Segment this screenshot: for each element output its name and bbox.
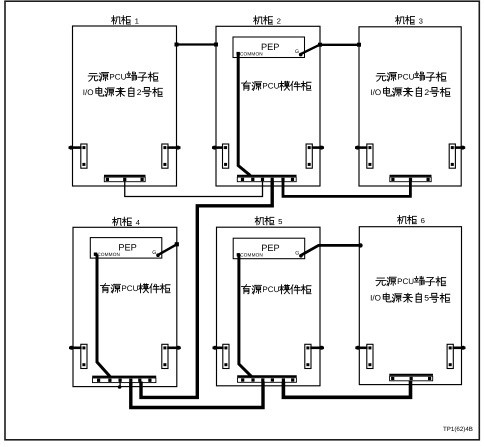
svg-text:PCU: PCU xyxy=(262,285,279,294)
cabinet 2 left terminal block xyxy=(212,144,229,168)
svg-text:PEP: PEP xyxy=(261,42,279,52)
PEP panel U5 (cabinet 5) xyxy=(233,238,305,259)
cabinet 6 box xyxy=(359,227,461,385)
label cabinet 2 xyxy=(253,16,280,26)
svg-text:5: 5 xyxy=(278,217,282,226)
wire cabinet2 G to cabinet3 xyxy=(301,43,361,54)
cabinet 1 bottom terminal strip xyxy=(104,176,146,182)
cabinet 3 box xyxy=(359,27,461,186)
label cabinet 5 xyxy=(255,216,282,226)
cabinet 2 text xyxy=(241,81,311,91)
cabinet 1 right terminal block xyxy=(162,144,181,168)
wire cabinet4 G to edge xyxy=(159,242,179,255)
cabinet 1 text line 2 xyxy=(83,87,163,97)
cabinet 6 left terminal block xyxy=(355,344,373,368)
svg-text:PCU: PCU xyxy=(262,82,279,91)
cabinet 1 text line 1 xyxy=(88,72,158,82)
svg-text:COMMON: COMMON xyxy=(240,253,263,258)
svg-text:G: G xyxy=(152,250,156,256)
svg-text:I/O: I/O xyxy=(370,88,381,97)
cabinet 3 text line 2 xyxy=(370,87,450,97)
PEP panel U4 (cabinet 4) xyxy=(90,238,162,259)
cabinet 1 box xyxy=(73,26,177,186)
cabinet 6 text line 2 xyxy=(370,293,450,303)
svg-text:PEP: PEP xyxy=(118,243,136,253)
cabinet 6 text line 1 xyxy=(376,276,446,286)
svg-text:PCU: PCU xyxy=(109,72,126,81)
cabinet 1 left terminal block xyxy=(69,144,88,168)
svg-text:PEP: PEP xyxy=(261,243,279,253)
svg-text:PCU: PCU xyxy=(397,72,414,81)
wire cabinet1 strip to cabinet2 strip xyxy=(125,181,263,197)
label cabinet 3 xyxy=(395,16,422,26)
cabinet 2 right terminal block xyxy=(306,144,324,168)
cabinet 5 bottom terminal strip xyxy=(237,376,297,382)
svg-text:2: 2 xyxy=(424,88,429,97)
wire cabinet5 COMMON to strip xyxy=(239,255,252,377)
cabinet 3 bottom terminal strip xyxy=(390,176,432,182)
wire cabinet2 strip to cabinet3 strip xyxy=(283,181,410,197)
svg-text:2: 2 xyxy=(277,17,281,26)
cabinet 3 text line 1 xyxy=(376,72,446,82)
svg-text:G: G xyxy=(295,250,299,256)
svg-text:2: 2 xyxy=(137,88,142,97)
cabinet 5 left terminal block xyxy=(213,344,230,368)
wire cabinet2 strip to cabinet4 strip (long) xyxy=(141,181,272,398)
cabinet 4 left terminal block xyxy=(69,344,87,368)
svg-text:TP1(62)4B: TP1(62)4B xyxy=(443,426,473,433)
cabinet 5 right terminal block xyxy=(305,344,324,368)
svg-text:COMMON: COMMON xyxy=(97,252,120,257)
cabinet 4 right terminal block xyxy=(162,344,181,368)
doc number xyxy=(443,426,473,433)
cabinet 5 box xyxy=(217,227,321,386)
cabinet 6 bottom terminal strip xyxy=(389,375,433,381)
cabinet 6 right terminal block xyxy=(447,344,465,368)
svg-text:6: 6 xyxy=(421,216,425,225)
svg-text:G: G xyxy=(295,49,299,55)
wire cabinet5 G to cabinet6 xyxy=(301,243,363,255)
wire cabinet5 strip to cabinet6 strip xyxy=(283,381,410,398)
wire cabinet4 strip stub to frame xyxy=(118,382,122,389)
cabinet 2 bottom terminal strip xyxy=(237,176,297,182)
label cabinet 1 xyxy=(111,16,138,26)
svg-text:5: 5 xyxy=(424,294,429,303)
cabinet 4 box xyxy=(73,227,177,386)
svg-text:PCU: PCU xyxy=(397,277,414,286)
cabinet 4 bottom terminal strip xyxy=(92,377,156,383)
PEP panel U2 (cabinet 2) xyxy=(233,37,305,58)
cabinet 3 left terminal block xyxy=(355,144,373,168)
svg-text:4: 4 xyxy=(136,218,140,227)
svg-text:I/O: I/O xyxy=(370,294,381,303)
svg-text:COMMON: COMMON xyxy=(240,52,263,57)
cabinet 4 text xyxy=(100,283,170,293)
cabinet 2 box xyxy=(216,26,320,186)
svg-text:PCU: PCU xyxy=(121,284,138,293)
wire cabinet2 COMMON to strip xyxy=(238,54,250,176)
label cabinet 4 xyxy=(112,217,139,227)
cabinet 5 text xyxy=(241,284,311,294)
svg-text:3: 3 xyxy=(419,16,423,25)
label cabinet 6 xyxy=(397,215,424,225)
wire cabinet4 strip to cabinet5 strip xyxy=(131,382,263,408)
cabinet 3 right terminal block xyxy=(449,144,465,168)
wire cabinet4 COMMON to strip xyxy=(97,254,110,376)
wire cabinet1-cabinet2 power link xyxy=(175,43,219,47)
svg-text:I/O: I/O xyxy=(83,88,94,97)
svg-text:1: 1 xyxy=(135,16,139,25)
